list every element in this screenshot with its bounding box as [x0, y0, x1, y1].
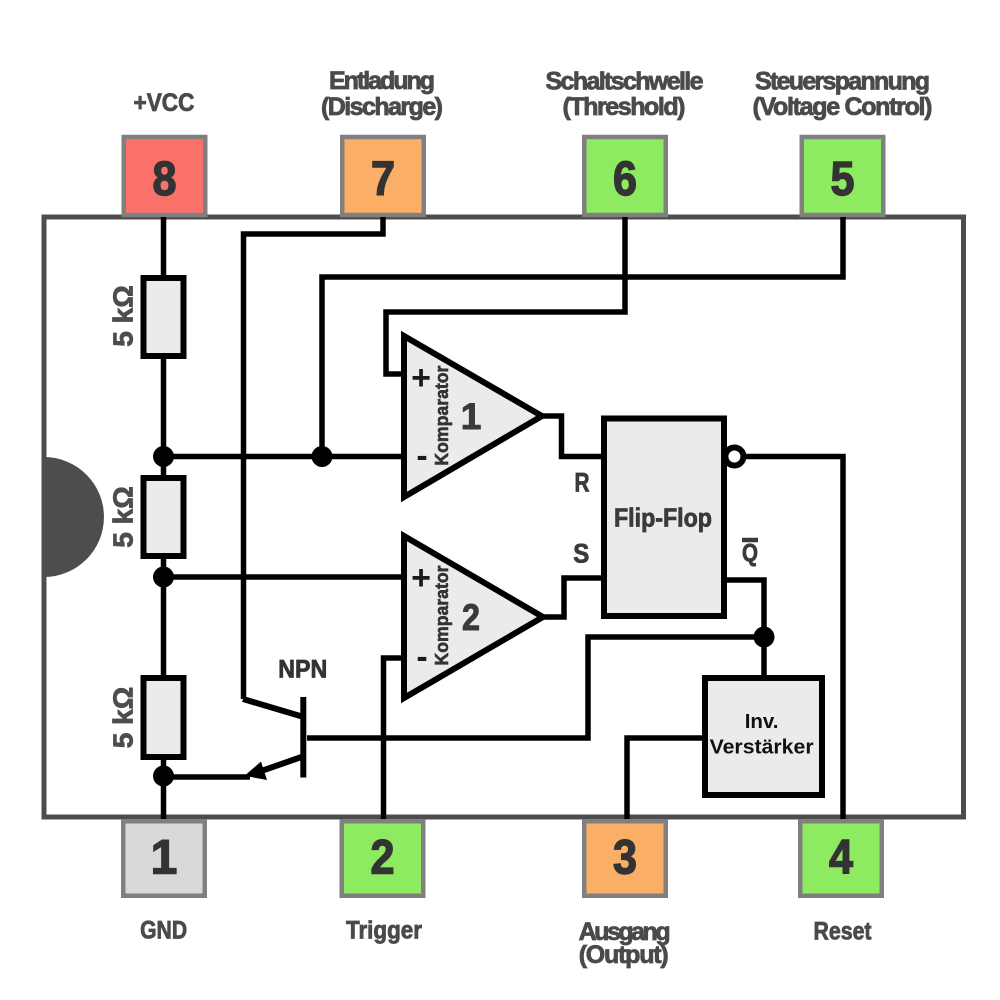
svg-text:1: 1 — [461, 396, 482, 437]
svg-text:-: - — [416, 638, 427, 676]
label Entladung (Discharge) — [321, 67, 443, 121]
svg-text:Trigger: Trigger — [346, 917, 422, 945]
wire comparator 1 output to flip-flop R — [542, 416, 604, 457]
svg-text:Q: Q — [742, 539, 758, 567]
svg-text:Reset: Reset — [814, 918, 873, 946]
svg-text:Inv.: Inv. — [745, 710, 779, 733]
flip-flop reset inversion bubble — [725, 448, 743, 466]
resistor R1 — [144, 278, 184, 356]
wire bubble to pin4 reset — [746, 457, 843, 820]
pin 1 (GND) — [123, 821, 205, 896]
label Schaltschwelle (Threshold) — [546, 68, 704, 121]
svg-text:2: 2 — [462, 597, 480, 638]
svg-text:8: 8 — [153, 153, 177, 206]
svg-text:5 kΩ: 5 kΩ — [108, 486, 139, 547]
wire pin8 to R1 — [161, 217, 167, 280]
svg-text:7: 7 — [371, 153, 395, 206]
svg-text:Schaltschwelle: Schaltschwelle — [546, 68, 704, 96]
inverting amplifier label — [710, 710, 814, 759]
pin 6 (Schaltschwelle) — [584, 137, 666, 215]
svg-text:(Threshold): (Threshold) — [563, 93, 686, 121]
pin 8 (+VCC) — [124, 137, 206, 215]
junction dot pin5 branch on node A wire — [312, 446, 333, 467]
svg-text:Komparator: Komparator — [432, 366, 452, 466]
wire node D to transistor base — [307, 637, 764, 738]
wire pin2 trigger to comparator 2 minus input — [384, 658, 405, 819]
svg-text:6: 6 — [613, 153, 637, 206]
pin 3 (Ausgang) — [584, 821, 666, 896]
svg-text:2: 2 — [371, 832, 395, 885]
wire pin6 to comparator 1 plus input — [386, 217, 625, 374]
node B junction dot — [153, 567, 174, 588]
svg-text:Komparator: Komparator — [432, 566, 452, 666]
svg-text:3: 3 — [613, 832, 637, 885]
svg-text:+: + — [411, 559, 431, 597]
wire node B to comparator 2 plus input — [164, 574, 405, 580]
comparator U1 triangle — [404, 336, 542, 497]
svg-text:5 kΩ: 5 kΩ — [108, 285, 139, 346]
wire emitter to node C — [164, 774, 251, 780]
wire node D to inverter input — [761, 637, 767, 678]
svg-text:(Discharge): (Discharge) — [321, 93, 443, 121]
resistor R2 — [144, 478, 184, 556]
wire node B to R3 — [161, 577, 167, 680]
svg-text:Entladung: Entladung — [329, 67, 435, 95]
wire flip-flop Qbar to node D — [724, 580, 764, 637]
wire pin7 jog — [244, 217, 384, 699]
wire node A to R2 — [161, 457, 167, 480]
wire node A to comparator 1 minus input — [164, 454, 405, 460]
inverting amplifier box — [705, 678, 822, 795]
svg-text:4: 4 — [829, 832, 853, 885]
wire R3 to node C — [161, 757, 167, 776]
wire comparator 2 output to flip-flop S — [543, 578, 604, 617]
node A junction dot — [153, 446, 174, 467]
transistor Q1 collector diagonal — [243, 699, 302, 717]
wire R2 to node B — [161, 556, 167, 577]
transistor Q1 emitter diagonal — [254, 757, 302, 774]
node D junction dot — [754, 627, 775, 648]
node C junction dot — [153, 766, 174, 787]
label Ausgang (Output) — [579, 918, 671, 969]
label Steuerspannung (Voltage Control) — [753, 68, 933, 121]
svg-text:GND: GND — [140, 917, 187, 945]
wire R1 to node A — [161, 356, 167, 457]
resistor R3 — [144, 678, 184, 757]
IC body outline — [44, 217, 964, 817]
comparator U2 triangle — [404, 536, 543, 698]
pin 4 (Reset) — [800, 821, 882, 896]
notch — [44, 457, 104, 577]
svg-text:Flip-Flop: Flip-Flop — [614, 502, 712, 532]
svg-text:+: + — [411, 359, 431, 397]
svg-text:Verstärker: Verstärker — [710, 736, 814, 759]
wire pin5 to node A branch — [322, 217, 843, 456]
svg-text:-: - — [416, 437, 427, 475]
pin 2 (Trigger) — [342, 821, 424, 896]
flip-flop box — [604, 419, 724, 617]
flip-flop Qbar output label — [742, 539, 758, 567]
svg-text:5: 5 — [831, 153, 855, 206]
transistor Q1 base bar — [300, 697, 306, 778]
svg-text:(Voltage Control): (Voltage Control) — [753, 93, 933, 121]
pin 7 (Entladung) — [342, 137, 424, 215]
svg-text:S: S — [573, 539, 589, 569]
svg-text:1: 1 — [151, 832, 178, 885]
wire node C to pin1 GND — [161, 776, 167, 819]
svg-text:5 kΩ: 5 kΩ — [108, 687, 139, 748]
wire inverter output to pin3 — [627, 738, 705, 819]
transistor Q1 emitter arrowhead — [245, 762, 268, 781]
pin 5 (Steuerspannung) — [802, 137, 884, 215]
svg-text:Steuerspannung: Steuerspannung — [755, 68, 930, 96]
svg-text:+VCC: +VCC — [134, 89, 195, 117]
svg-text:(Output): (Output) — [579, 941, 669, 969]
svg-text:R: R — [575, 467, 590, 497]
svg-text:NPN: NPN — [278, 656, 327, 684]
